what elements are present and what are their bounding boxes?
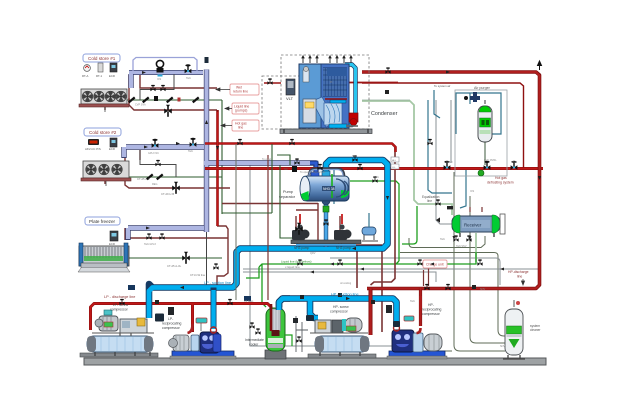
evaporator cold store 2 (81, 161, 131, 186)
svg-text:HP-discharge: HP-discharge (508, 270, 529, 274)
svg-text:line: line (238, 126, 243, 130)
cs1 back pressure regulator omega (156, 60, 163, 76)
svg-text:Plate freezer: Plate freezer (89, 219, 116, 224)
pump discharge maroon manifold (296, 203, 340, 244)
svg-text:SNV: SNV (480, 288, 485, 291)
svg-text:To cond.: To cond. (262, 158, 272, 161)
HP suction line (279, 299, 397, 325)
svg-text:NH3 38: NH3 38 (323, 187, 335, 191)
separator gas outlet to LP suction loop (149, 160, 388, 318)
LP screw compressor (80, 310, 158, 357)
svg-text:SVA: SVA (440, 238, 445, 241)
branch left lower (246, 267, 259, 278)
svg-text:Receiver: Receiver (464, 223, 482, 228)
svg-text:Pump: Pump (283, 190, 293, 194)
long horizontal liquid hot defrost (259, 252, 476, 267)
svg-text:SVA: SVA (374, 176, 379, 179)
charge unit connection (424, 268, 429, 286)
svg-text:return line: return line (233, 90, 248, 94)
maroon vertical from hot gas header to HP header (356, 146, 395, 332)
hot gas header to evaporators (205, 144, 396, 153)
svg-text:SVA SNV: SVA SNV (456, 245, 467, 248)
svg-text:ICS: ICS (157, 78, 162, 81)
LP reciprocating compressor (168, 307, 236, 359)
oil line to system cleaner 3 (400, 253, 506, 337)
hot gas defrost station valves on red header (444, 161, 518, 176)
dark green liquid riser (pumped liquid to evaporators) (126, 100, 222, 258)
HP reciprocating compressor (386, 305, 447, 359)
svg-text:NH3 pump: NH3 pump (294, 246, 309, 250)
spray water pipes inside (325, 98, 347, 100)
air purger drain (484, 142, 486, 165)
pumped liquid line to evaporators (222, 203, 318, 205)
svg-text:cooler: cooler (249, 343, 259, 347)
floor (84, 358, 546, 365)
svg-text:SVA: SVA (352, 155, 357, 158)
svg-text:SVA: SVA (188, 150, 193, 153)
svg-text:Condenser: Condenser (371, 111, 398, 117)
svg-text:SVA: SVA (410, 300, 415, 303)
svg-text:LP - discharge line: LP - discharge line (104, 295, 135, 299)
svg-text:GPLX NC: GPLX NC (148, 152, 159, 155)
misc small black squares as instruments (155, 90, 476, 304)
drain line under compressors (420, 350, 452, 352)
condenser dashed enclosure (262, 55, 369, 129)
equalization small fittings (436, 206, 453, 223)
LP discharge valves (119, 299, 124, 305)
svg-text:SVA: SVA (186, 77, 191, 80)
HP screw discharge riser into separator (369, 289, 373, 336)
svg-text:VLT: VLT (286, 96, 294, 101)
evap drip lines (104, 106, 106, 110)
olive vertical x236 (235, 144, 237, 300)
to system air loop (434, 90, 440, 118)
svg-text:PML: PML (512, 161, 518, 164)
teal equalization lines (334, 90, 501, 208)
row flow arrows (142, 71, 150, 230)
svg-text:reciprocating: reciprocating (422, 308, 442, 312)
svg-text:SVA GPLX: SVA GPLX (144, 243, 156, 246)
condenser unit (280, 55, 372, 134)
pump manifold (296, 243, 356, 247)
intermediate cooler (249, 304, 292, 359)
svg-text:ICS: ICS (470, 190, 475, 193)
receiver (452, 207, 505, 237)
svg-text:ECR: ECR (109, 147, 115, 151)
svg-text:Air purger: Air purger (474, 86, 491, 90)
svg-text:REG: REG (152, 183, 157, 186)
svg-text:(pumps): (pumps) (235, 109, 247, 113)
air purger loop (456, 93, 501, 134)
cs2 valves (152, 139, 159, 148)
hot gas defrost header (right) (205, 167, 543, 170)
separator top valves (294, 158, 299, 164)
evaporator cold store 1 (79, 89, 129, 112)
air purger top fittings (470, 92, 480, 102)
cooler suction elbow redraw on top (279, 299, 290, 311)
svg-text:reciprocating: reciprocating (162, 322, 182, 326)
HP screw compressor (308, 318, 376, 358)
svg-text:SNV: SNV (500, 345, 505, 348)
svg-text:LP- screw: LP- screw (113, 303, 129, 307)
air purger frame (455, 90, 507, 176)
svg-text:RT-1: RT-1 (96, 74, 102, 78)
svg-text:x liquid line: x liquid line (285, 265, 300, 269)
svg-text:cleaner: cleaner (530, 328, 541, 332)
system cleaner (503, 300, 525, 359)
flow arrows small (176, 70, 541, 300)
svg-text:compressor: compressor (422, 312, 441, 316)
cs1 liquid valves (128, 96, 200, 103)
cs2 defrost loop (140, 150, 176, 177)
pale green condensate line from condenser to receiver (362, 101, 452, 215)
wet return continues below as thin line to suction (206, 232, 208, 285)
liquid hot defrost valves (337, 259, 342, 265)
svg-text:NC: NC (284, 167, 288, 171)
svg-text:line: line (517, 275, 522, 279)
cold store 1 liquid branch (127, 99, 222, 101)
green into receiver area (396, 261, 399, 264)
cs1 defrost relief loop (140, 74, 174, 100)
hot gas riser (216, 110, 219, 226)
svg-text:oil cooling: oil cooling (340, 282, 352, 285)
svg-text:ECR: ECR (109, 74, 115, 78)
red stub on recip discharge (419, 296, 422, 310)
svg-text:defrosting system: defrosting system (487, 181, 514, 185)
svg-text:To open during defrost: To open during defrost (300, 171, 325, 174)
cs1 defrost drain (140, 75, 217, 88)
svg-text:ECR: ECR (109, 242, 115, 246)
maroon loop near wet return bottom (217, 226, 228, 285)
cold store 1 hot gas branch (128, 75, 130, 103)
svg-text:GPLX: GPLX (446, 161, 453, 164)
cold store 2 liquid branch (126, 176, 222, 178)
suction line fittings (128, 285, 135, 290)
svg-text:Cold store #2: Cold store #2 (89, 130, 117, 135)
svg-text:LP-: LP- (168, 317, 173, 321)
second gray line (243, 272, 436, 282)
maroon vertical x268 (267, 155, 269, 300)
receiver inlet valve (435, 199, 440, 205)
svg-text:Oil drain: Oil drain (244, 300, 254, 303)
royal blue separator inlet elbow (310, 163, 316, 176)
svg-text:CT-D-W line: CT-D-W line (190, 273, 206, 277)
wet return riser + cs2 + freezer (124, 70, 316, 241)
plate freezer (78, 243, 130, 272)
svg-text:Hot gas: Hot gas (495, 176, 507, 180)
svg-text:CT-25 A-2: CT-25 A-2 (137, 177, 150, 181)
top red line valve (267, 78, 272, 84)
oil / misc gray-olive lines bottom right (400, 172, 506, 351)
svg-text:HP - suction line: HP - suction line (331, 293, 359, 297)
oil return line from wet return area (250, 164, 420, 346)
svg-text:Intermediate: Intermediate (245, 338, 264, 342)
cs1 thin bypass loop (133, 58, 197, 72)
NH3 pumps (291, 214, 361, 250)
condenser support legs (284, 129, 368, 133)
gray utility lines (243, 100, 540, 346)
svg-text:Pt: Pt (330, 81, 333, 84)
cs1 wet return valves (185, 64, 192, 73)
pump suction drop pipe from separator (324, 200, 328, 247)
svg-text:compressor: compressor (330, 310, 349, 314)
HP discharge drop to HP recip (419, 289, 422, 327)
x liquid line (243, 268, 540, 270)
svg-text:NH3 pump: NH3 pump (336, 246, 351, 250)
air discharge arrows on top (303, 57, 351, 63)
VLT drive (286, 79, 295, 95)
svg-text:compressor: compressor (110, 308, 129, 312)
oil line to system cleaner 1 (454, 172, 505, 351)
LP recip suction drop (211, 288, 217, 330)
svg-text:Charge unit: Charge unit (426, 263, 444, 267)
wet return bottom valve (213, 263, 218, 269)
cold store 2 hot gas branch (125, 150, 230, 188)
receiver outlet pale green down (475, 233, 477, 262)
svg-text:Cold store #1: Cold store #1 (88, 56, 116, 61)
valve station left of HP screw (296, 316, 308, 352)
drop to intermediate cooler (262, 264, 266, 307)
pump separator (300, 169, 349, 206)
svg-text:To system air: To system air (434, 84, 451, 88)
plate freezer liquid branch (128, 257, 222, 259)
svg-text:HP- screw: HP- screw (333, 305, 349, 309)
oil line to system cleaner 2 (470, 196, 505, 343)
green mesh near separator (222, 144, 294, 238)
misc fittings (155, 57, 400, 327)
svg-text:line: line (427, 199, 432, 203)
svg-text:CT-25 A-3L: CT-25 A-3L (167, 264, 182, 268)
svg-text:LP - suction line: LP - suction line (204, 281, 231, 285)
svg-text:compressor: compressor (162, 326, 181, 330)
svg-text:CVP SVA: CVP SVA (135, 104, 146, 107)
svg-text:CT-29 H B: CT-29 H B (161, 192, 174, 196)
water pump red (349, 113, 358, 122)
hot gas header valves (317, 164, 322, 170)
svg-text:CVC PMFL: CVC PMFL (484, 159, 497, 162)
main HP discharge riser + condenser feed (362, 72, 540, 289)
thin red line under main (to air purger) (362, 83, 524, 168)
svg-text:RT-A: RT-A (82, 74, 88, 78)
from separator right side (350, 181, 399, 261)
LP discharge line (91, 304, 272, 333)
control panel on condenser (326, 154, 328, 156)
bright green liquid (hot defrost) line (246, 181, 476, 307)
solenoid near separator inlet (292, 166, 297, 172)
oil pot small vessel (362, 213, 378, 241)
condenser inlet stub (340, 82, 398, 84)
condenser gas riser (344, 65, 356, 126)
svg-text:separator: separator (279, 195, 296, 199)
plate freezer valves (146, 233, 151, 239)
svg-text:Liquid line (hot defrost): Liquid line (hot defrost) (281, 260, 312, 264)
svg-text:AKV-CC P/S: AKV-CC P/S (85, 147, 101, 151)
svg-text:QDV: QDV (310, 252, 316, 255)
svg-text:HP-: HP- (428, 303, 434, 307)
air purger vessel (478, 100, 492, 142)
plate freezer hot gas (125, 237, 228, 239)
